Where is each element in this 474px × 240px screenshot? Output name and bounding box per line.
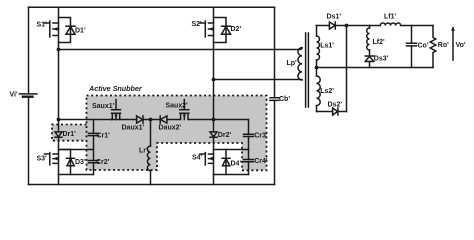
capacitor Cr3' bbox=[244, 120, 268, 150]
wire midpoint to Lp' top bbox=[59, 48, 303, 50]
wire output bottom rail bbox=[317, 67, 434, 69]
diode D2' (body diode of S2') bbox=[222, 26, 242, 34]
active snubber dashed border bbox=[87, 96, 267, 171]
wire Saux2' to right leg and Cr3' branch bbox=[189, 119, 249, 121]
capacitor Cb' bbox=[270, 96, 290, 103]
node S1/S3 midpoint bbox=[57, 48, 61, 52]
wire S3' drain to Cr mid bbox=[59, 149, 94, 151]
wire Ds2' to node A vertical bbox=[338, 111, 347, 113]
diode Dr1' bbox=[55, 131, 76, 138]
svg-text:Ro': Ro' bbox=[438, 42, 449, 49]
wire left rail upper bbox=[28, 7, 30, 94]
svg-text:Cr1': Cr1' bbox=[97, 133, 111, 140]
wire node A down to Ds2' bbox=[346, 26, 348, 112]
diode Daux2' bbox=[159, 116, 182, 132]
diode D1' (body diode of S1') bbox=[66, 26, 86, 34]
diode Ds2' bbox=[328, 101, 343, 115]
svg-text:Dr2': Dr2' bbox=[218, 132, 232, 139]
wire Daux2' to Saux2' bbox=[167, 119, 179, 121]
node S2/S4 midpoint bbox=[212, 78, 216, 82]
svg-text:Daux2': Daux2' bbox=[159, 125, 182, 132]
Dr1' appendix dashed border bbox=[52, 125, 87, 141]
wire S3' bottom loop to Cr2' bbox=[59, 174, 94, 176]
wire Ds1' to node A bbox=[335, 25, 346, 27]
node Lr' top bbox=[149, 118, 153, 122]
svg-text:S2': S2' bbox=[192, 21, 203, 28]
wire midpoint to Lp' bottom bbox=[214, 79, 303, 81]
node left leg / snubber rail bbox=[57, 118, 61, 122]
svg-text:Saux2': Saux2' bbox=[166, 102, 189, 109]
wire node A to Lf1' bbox=[347, 25, 381, 27]
wire Dr1' to S3' bbox=[58, 120, 60, 150]
svg-text:S4': S4' bbox=[192, 154, 203, 161]
transistor Saux2' bbox=[166, 100, 189, 120]
wire Daux1' to Lr' node bbox=[143, 119, 160, 121]
transformer secondary Ls1' bbox=[317, 26, 335, 68]
svg-text:Saux1': Saux1' bbox=[92, 103, 115, 110]
inductor Lr' bbox=[139, 120, 151, 185]
svg-text:Vo': Vo' bbox=[456, 42, 466, 49]
capacitor Cr4' bbox=[244, 150, 268, 175]
diode D3' (body diode of S3') bbox=[67, 150, 86, 175]
transformer secondary Ls2' bbox=[317, 68, 335, 112]
diode D4' (body diode of S4') bbox=[222, 150, 241, 175]
wire S3' source to bottom rail bbox=[58, 175, 60, 185]
diode Dr2' bbox=[210, 132, 231, 139]
capacitor Cr1' bbox=[89, 120, 111, 150]
svg-text:Vi': Vi' bbox=[10, 92, 18, 99]
wire left leg down to snubber node bbox=[58, 50, 60, 120]
transistor S1' bbox=[37, 7, 71, 42]
transistor S3' bbox=[37, 150, 71, 175]
snubber rail wire left bbox=[59, 119, 112, 121]
wire bottom rail bbox=[29, 184, 275, 186]
source Vi' bbox=[10, 92, 38, 99]
svg-text:Cr3': Cr3' bbox=[254, 132, 268, 139]
node secondary center tap bbox=[315, 66, 319, 70]
node A rectifier output bbox=[345, 24, 349, 28]
inductor Lf1' bbox=[380, 13, 400, 25]
svg-text:Ds2': Ds2' bbox=[328, 101, 343, 108]
svg-text:Cb': Cb' bbox=[279, 96, 290, 103]
active snubber shaded region bbox=[87, 96, 267, 171]
svg-text:D1': D1' bbox=[75, 28, 86, 35]
svg-text:Lf1': Lf1' bbox=[384, 13, 397, 20]
transistor Saux1' bbox=[92, 100, 121, 120]
resistor Ro' bbox=[430, 26, 449, 68]
transformer core bbox=[306, 33, 309, 107]
node right leg / snubber rail bbox=[212, 118, 216, 122]
svg-text:Co': Co' bbox=[418, 43, 429, 50]
wire Ls1' to Ds1' bbox=[317, 25, 330, 27]
wire S2' source down right leg bbox=[213, 43, 215, 120]
svg-text:Cr2': Cr2' bbox=[96, 159, 110, 166]
svg-text:S1': S1' bbox=[37, 22, 48, 29]
wire top rail bbox=[29, 6, 275, 8]
wire Ls2' to Ds2' bbox=[317, 111, 333, 113]
wire Dr2' to S4' bbox=[213, 120, 215, 150]
svg-text:Cr4': Cr4' bbox=[254, 158, 268, 165]
svg-text:Lr': Lr' bbox=[139, 148, 148, 155]
svg-text:Lf2': Lf2' bbox=[373, 39, 386, 46]
wire S4' drain to Cr mid bbox=[214, 149, 249, 151]
wire S4' bottom loop to Cr4' bbox=[214, 174, 249, 176]
transistor S2' bbox=[192, 7, 227, 42]
wire left rail lower bbox=[28, 97, 30, 185]
diode Daux1' bbox=[122, 116, 145, 132]
svg-text:D3': D3' bbox=[75, 159, 86, 166]
capacitor Cr2' bbox=[89, 150, 110, 175]
svg-text:S3': S3' bbox=[37, 156, 48, 163]
arrow Vo' bbox=[451, 26, 466, 60]
svg-text:Ls1': Ls1' bbox=[320, 43, 334, 50]
wire Lf1' to output corner bbox=[401, 25, 433, 27]
transistor S4' bbox=[192, 150, 214, 175]
transformer primary Lp' bbox=[287, 48, 303, 80]
wire primary right vertical with Cb' bbox=[274, 7, 276, 98]
svg-text:D2': D2' bbox=[231, 26, 242, 33]
capacitor Co' bbox=[407, 26, 429, 68]
wire Saux1' to Daux1' bbox=[111, 119, 136, 121]
Dr1' appendix shaded region bbox=[52, 125, 87, 141]
svg-text:Daux1': Daux1' bbox=[122, 125, 145, 132]
svg-text:Active Snubber: Active Snubber bbox=[88, 84, 143, 93]
svg-text:Ds1': Ds1' bbox=[327, 14, 342, 21]
diode Ds1' bbox=[327, 14, 342, 30]
svg-text:Ls2': Ls2' bbox=[320, 88, 334, 95]
svg-text:Dr1': Dr1' bbox=[63, 131, 77, 138]
inductor Lf2' bbox=[367, 26, 385, 51]
diode Ds3' bbox=[365, 50, 388, 68]
wire S1' source to node bbox=[58, 43, 60, 50]
wire S4' source to bottom rail bbox=[213, 175, 215, 185]
svg-text:D4': D4' bbox=[231, 161, 242, 168]
svg-text:Ds3': Ds3' bbox=[374, 56, 389, 63]
svg-text:Lp': Lp' bbox=[287, 60, 298, 67]
